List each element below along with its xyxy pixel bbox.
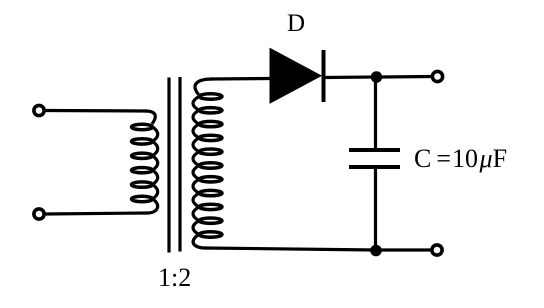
- terminal: output top-right: [432, 71, 442, 81]
- diode D triangle (anode): [270, 49, 321, 104]
- wire: secondary top to diode anode: [210, 77, 270, 81]
- wire: secondary bottom rail to bottom-right terminal: [205, 248, 432, 250]
- svg-text:1:2: 1:2: [158, 263, 191, 292]
- node: junction top (diode/capacitor): [371, 71, 383, 83]
- svg-text:D: D: [287, 10, 305, 37]
- node: junction bottom (capacitor/rail): [370, 245, 382, 257]
- terminal: input top-left: [34, 105, 44, 115]
- capacitor C top plate: [349, 148, 400, 152]
- wire: capacitor down to bottom rail: [374, 169, 377, 250]
- capacitor C bottom plate: [349, 165, 400, 169]
- wire: diode cathode to top-right terminal: [324, 77, 433, 78]
- transformer T1 primary winding: [132, 111, 158, 213]
- wire: bottom-left terminal to primary winding: [45, 213, 149, 214]
- diode D cathode bar: [322, 50, 326, 102]
- transformer core line left: [167, 78, 170, 253]
- terminal: output bottom-right: [432, 245, 442, 255]
- transformer T1 secondary winding: [193, 79, 222, 248]
- transformer core line right: [178, 77, 181, 252]
- svg-text:C=10μF: C=10μF: [414, 144, 507, 173]
- terminal: input bottom-left: [34, 209, 44, 219]
- wire: top junction down to capacitor: [374, 77, 377, 148]
- wire: top-left terminal to primary winding: [45, 109, 148, 113]
